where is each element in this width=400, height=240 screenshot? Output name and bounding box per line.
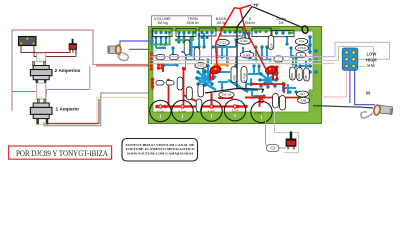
svg-text:1M: 1M xyxy=(279,21,284,25)
fuse tube lower xyxy=(37,83,46,99)
svg-text:4.7uF: 4.7uF xyxy=(156,110,163,114)
wire maroon drops to fuse xyxy=(36,53,38,63)
svg-text:4.7uF: 4.7uF xyxy=(178,110,185,114)
fuse holder F2 (1 Amperio) xyxy=(30,99,52,124)
transistor pad cluster right xyxy=(260,73,276,87)
svg-text:TONYGT-IBIZA? VISITA MI CANAL: TONYGT-IBIZA? VISITA MI CANAL DE xyxy=(126,143,196,147)
POTS xyxy=(150,100,273,123)
wire maroon bottom loop xyxy=(47,99,99,123)
extra blue mid segments xyxy=(218,78,296,94)
wire tan ground xyxy=(38,97,150,124)
wire blue jack to pcb xyxy=(120,41,154,45)
LEFT HARNESS xyxy=(12,30,149,126)
toggle switch S1 xyxy=(69,39,77,52)
svg-text:1 Amperio: 1 Amperio xyxy=(56,107,79,113)
svg-text:100 1W: 100 1W xyxy=(222,93,232,97)
svg-text:470k: 470k xyxy=(233,74,237,81)
wire blue connector drops xyxy=(349,70,351,103)
svg-text:1uF: 1uF xyxy=(270,43,274,48)
resistors (white rounded, vertical) xyxy=(156,36,309,113)
wire pink LOW xyxy=(150,63,335,65)
pot pads and values xyxy=(156,99,263,119)
wire gray ground xyxy=(44,93,149,126)
wire black to jack IN xyxy=(313,106,373,108)
wire lavender crossing xyxy=(150,56,321,58)
svg-text:42H: 42H xyxy=(39,97,43,99)
svg-text:4.7uF: 4.7uF xyxy=(254,111,261,115)
transistor blob Q1 (red) xyxy=(209,65,222,75)
transistor pad cluster left xyxy=(197,71,213,85)
fuse tube upper xyxy=(37,53,46,62)
svg-text:POR DJC89 Y TONYGT-IBIZA: POR DJC89 Y TONYGT-IBIZA xyxy=(16,149,108,158)
diode component D1 xyxy=(267,145,280,152)
wire rose drop to power switch xyxy=(266,112,269,148)
svg-text:68k: 68k xyxy=(304,74,308,79)
blue trace net xyxy=(152,32,312,97)
svg-text:0.68: 0.68 xyxy=(301,98,307,102)
wire lavender HIGH xyxy=(150,42,390,59)
wire palegreen loop bottom xyxy=(275,112,299,153)
wire palegreen Vin xyxy=(150,47,374,67)
jack J2 input (left of pcb) xyxy=(108,41,154,61)
svg-text:100k: 100k xyxy=(297,72,301,79)
svg-text:1M log: 1M log xyxy=(157,21,168,25)
pot TREB xyxy=(172,100,193,121)
svg-text:2 Amperios: 2 Amperios xyxy=(55,68,81,74)
text box POR DJC89 xyxy=(9,146,112,159)
red trace net xyxy=(153,63,306,107)
svg-text:247: 247 xyxy=(300,92,305,96)
pot GAIN xyxy=(251,101,272,122)
svg-text:250k lin: 250k lin xyxy=(186,21,198,25)
wire orange jumper xyxy=(215,57,228,65)
wire pink crossing xyxy=(150,63,321,65)
white header boxes top row xyxy=(153,28,295,37)
fuse holder F1 (2 Amperios) xyxy=(30,62,52,84)
blue pads xyxy=(150,30,317,98)
wire purple U xyxy=(46,67,90,100)
EXTERNAL COMPONENTS xyxy=(19,5,393,153)
toggle switch S2 power xyxy=(286,132,297,150)
PCB TRACES xyxy=(150,28,321,120)
pcb white interior xyxy=(153,31,313,112)
svg-text:V in: V in xyxy=(367,63,375,68)
svg-text:1M lin: 1M lin xyxy=(216,21,225,25)
capacitor ellipses xyxy=(195,38,310,104)
text box youtube xyxy=(122,139,198,162)
svg-text:4.7uF: 4.7uF xyxy=(207,109,214,113)
svg-text:IN: IN xyxy=(366,91,370,96)
wire gray jack to pcb xyxy=(129,48,150,50)
wire palegreen crossing xyxy=(150,59,321,61)
pot VOLUME xyxy=(150,100,171,121)
wire lavender fuse link xyxy=(12,91,36,93)
PCB BOARD xyxy=(149,27,322,124)
wire maroon connector to rails xyxy=(21,46,70,53)
pot MID xyxy=(224,100,245,121)
svg-text:50k lin: 50k lin xyxy=(245,21,255,25)
black ring wire loop xyxy=(301,25,309,34)
svg-text:4.70uF: 4.70uF xyxy=(243,73,247,82)
jack J3 IN (bottom right) xyxy=(361,104,393,118)
svg-text:4.70uF: 4.70uF xyxy=(298,46,307,50)
wire gray sw link xyxy=(279,147,286,149)
svg-text:YOUTUBE. FLAMENCO METALGOTIC: YOUTUBE. FLAMENCO METALGOTICO xyxy=(126,147,195,151)
green jumper wires xyxy=(150,29,294,65)
svg-text:0.022: 0.022 xyxy=(241,39,248,43)
wire pink connector drop xyxy=(322,70,347,97)
svg-text:WWW.YOUTUBE.COM /CAMARACHOSI: WWW.YOUTUBE.COM /CAMARACHOSI xyxy=(127,152,194,156)
capacitor value texts xyxy=(197,39,306,102)
svg-text:OUT: OUT xyxy=(160,44,167,48)
connector J1 (top-left terminal block) xyxy=(19,37,37,46)
svg-text:42H: 42H xyxy=(39,60,43,62)
pot BASS xyxy=(201,100,222,121)
transistor blob Q2 (red) xyxy=(265,65,278,75)
svg-text:4.7uF: 4.7uF xyxy=(231,109,238,113)
blue connector CN1 xyxy=(342,48,358,70)
red pads xyxy=(150,52,286,108)
svg-text:470k: 470k xyxy=(298,40,305,44)
svg-text:680k: 680k xyxy=(290,72,294,79)
svg-text:LOW: LOW xyxy=(367,52,377,57)
pcb green frame xyxy=(149,27,322,124)
svg-text:0.022: 0.022 xyxy=(197,64,204,68)
svg-text:0.022: 0.022 xyxy=(219,41,226,45)
wire purple jumper inside xyxy=(183,57,186,70)
wire red +V harness xyxy=(216,5,267,70)
wire black +V to ring xyxy=(205,7,303,94)
label box volume/treb xyxy=(152,16,212,64)
wire rose outer loop xyxy=(12,30,149,111)
